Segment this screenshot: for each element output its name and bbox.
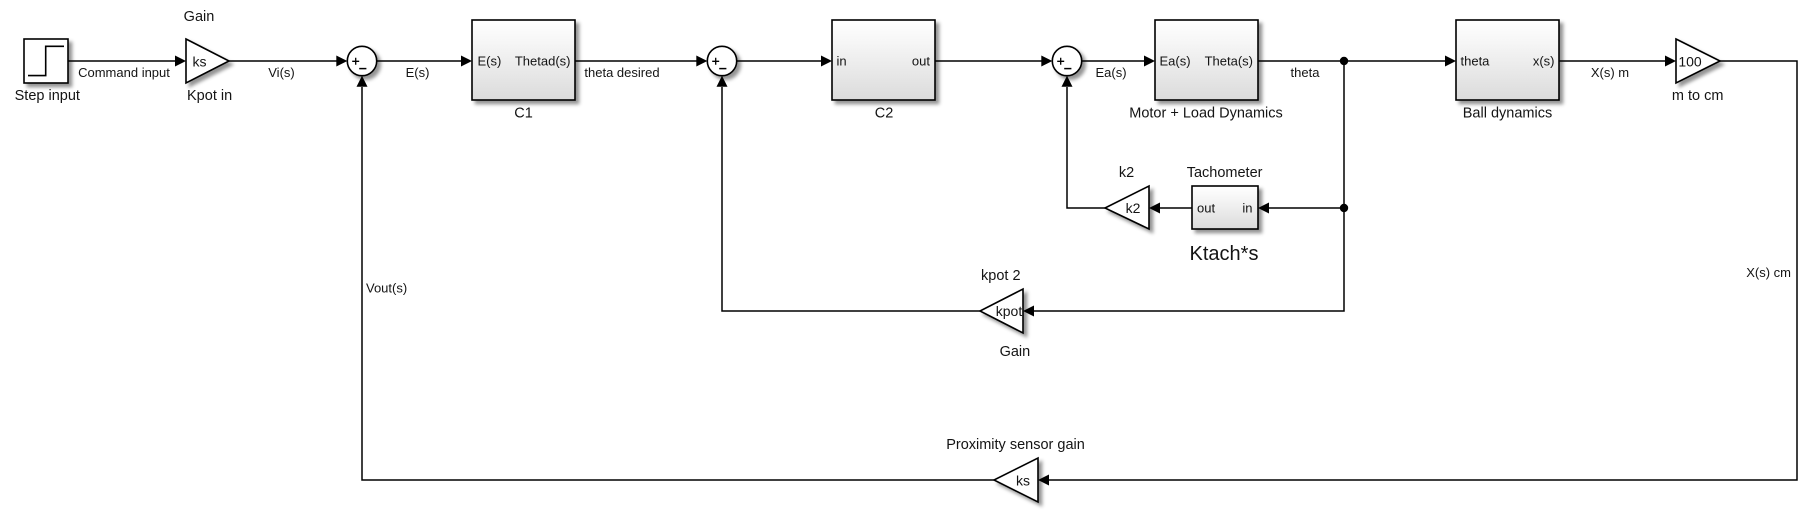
svg-text:C2: C2: [875, 106, 894, 122]
svg-text:out: out: [912, 54, 930, 69]
wire: Kpot in gain to sum1: [229, 56, 347, 67]
wire: sum1 to C1: [377, 56, 472, 67]
svg-text:k2: k2: [1119, 165, 1134, 181]
sum: junction 2: [707, 46, 736, 75]
wire: C2 to sum3: [935, 56, 1052, 67]
svg-text:100: 100: [1678, 53, 1702, 69]
svg-text:Motor + Load Dynamics: Motor + Load Dynamics: [1129, 106, 1283, 122]
svg-text:Gain: Gain: [184, 9, 215, 25]
node: junction dot tachometer tap: [1340, 204, 1348, 212]
svg-text:Gain: Gain: [1000, 344, 1031, 360]
wire: C1 to sum2: [575, 56, 707, 67]
svg-text:theta: theta: [1291, 65, 1321, 80]
svg-text:X(s) m: X(s) m: [1591, 65, 1629, 80]
svg-text:x(s): x(s): [1533, 54, 1555, 69]
svg-text:Kpot in: Kpot in: [187, 88, 232, 104]
block: Ball dynamics subsystem: [1456, 20, 1559, 100]
svg-text:in: in: [1242, 201, 1252, 216]
gain: Kpot in triangle ks: [186, 39, 229, 83]
svg-text:Vi(s): Vi(s): [268, 65, 294, 80]
wire: sum3 to Motor + Load Dynamics: [1082, 56, 1155, 67]
svg-text:kpot: kpot: [996, 303, 1023, 319]
svg-text:out: out: [1197, 201, 1215, 216]
svg-text:Vout(s): Vout(s): [366, 281, 407, 296]
svg-text:E(s): E(s): [406, 65, 430, 80]
block: C2 subsystem: [832, 20, 935, 100]
svg-text:kpot 2: kpot 2: [981, 268, 1021, 284]
gain: m to cm triangle 100: [1676, 39, 1720, 83]
svg-text:Ktach*s: Ktach*s: [1190, 243, 1259, 265]
svg-text:k2: k2: [1126, 200, 1141, 216]
svg-text:Step input: Step input: [15, 88, 80, 104]
svg-text:ks: ks: [193, 53, 207, 69]
wire: kpot 2 gain output left and up to sum2: [717, 76, 981, 311]
wire: ks proximity gain output left and up to sum1: [357, 76, 995, 480]
wire: theta node down then left to kpot 2 gain: [1023, 61, 1344, 317]
svg-text:Ea(s): Ea(s): [1095, 65, 1126, 80]
wire: sum2 to C2: [737, 56, 832, 67]
gain: ks proximity sensor triangle: [994, 458, 1038, 502]
svg-text:Theta(s): Theta(s): [1205, 54, 1253, 69]
sum: junction 1: [347, 46, 376, 75]
svg-text:C1: C1: [514, 106, 533, 122]
block: Step input source: [24, 39, 68, 83]
svg-text:ks: ks: [1016, 473, 1030, 489]
wire: tachometer tap to Tachometer in: [1258, 203, 1344, 214]
gain: kpot 2 triangle: [980, 289, 1023, 333]
wire: Tachometer out to k2 gain: [1149, 203, 1192, 214]
node: junction dot theta branch: [1340, 57, 1348, 65]
block: Tachometer subsystem: [1192, 186, 1258, 229]
gain: k2 triangle: [1105, 186, 1149, 229]
svg-text:X(s) cm: X(s) cm: [1746, 265, 1791, 280]
svg-text:Ball dynamics: Ball dynamics: [1463, 106, 1552, 122]
wire: m to cm gain right then down then left to ks proximity gain: [1038, 61, 1797, 486]
svg-text:theta: theta: [1461, 54, 1491, 69]
sum: junction 3: [1052, 46, 1081, 75]
svg-text:Proximity sensor gain: Proximity sensor gain: [946, 437, 1085, 453]
wire: Step input to Kpot in gain: [68, 56, 186, 67]
svg-text:E(s): E(s): [478, 54, 502, 69]
wire: Ball dynamics to m to cm gain: [1559, 56, 1676, 67]
svg-text:Command input: Command input: [78, 65, 170, 80]
svg-text:m to cm: m to cm: [1672, 88, 1724, 104]
svg-text:Thetad(s): Thetad(s): [515, 54, 571, 69]
svg-text:Tachometer: Tachometer: [1187, 165, 1263, 181]
svg-text:in: in: [837, 54, 847, 69]
svg-text:Ea(s): Ea(s): [1160, 54, 1191, 69]
block: C1 subsystem: [472, 20, 575, 100]
wire: k2 gain output left and up to sum3: [1062, 76, 1106, 208]
wire: Motor + Load Dynamics to Ball dynamics: [1258, 56, 1456, 67]
block: Motor + Load Dynamics subsystem: [1155, 20, 1258, 100]
svg-text:theta desired: theta desired: [584, 65, 659, 80]
